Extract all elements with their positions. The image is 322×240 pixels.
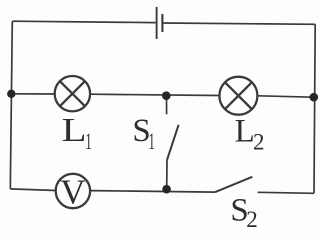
svg-text:1: 1 bbox=[149, 129, 155, 155]
svg-text:V: V bbox=[60, 172, 85, 211]
svg-text:L: L bbox=[235, 114, 255, 150]
svg-text:2: 2 bbox=[246, 207, 258, 232]
svg-text:2: 2 bbox=[253, 129, 265, 154]
svg-text:1: 1 bbox=[85, 129, 91, 155]
svg-text:L: L bbox=[62, 112, 87, 149]
